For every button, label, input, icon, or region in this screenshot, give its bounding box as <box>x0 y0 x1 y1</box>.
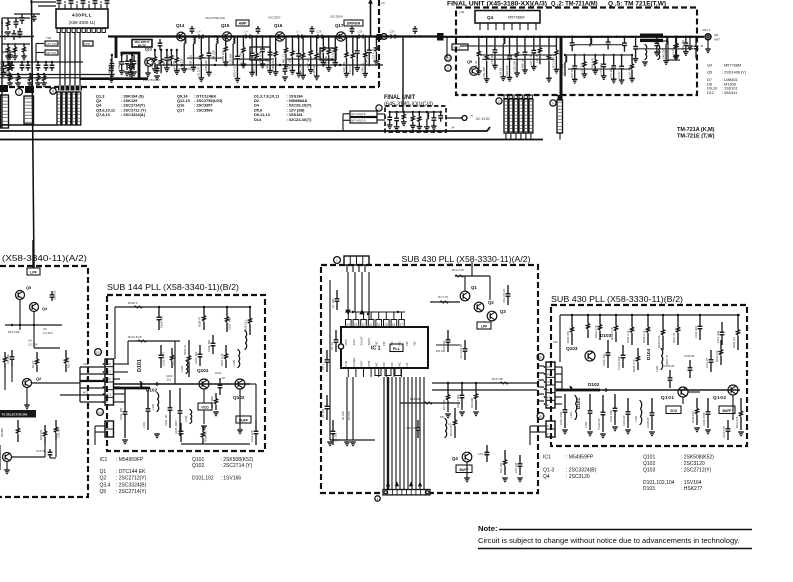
svg-text:L21 2.2: L21 2.2 <box>580 63 584 72</box>
svg-text:2.2 20V: 2.2 20V <box>43 331 53 335</box>
svg-text:C104 .3P: C104 .3P <box>164 415 168 426</box>
svg-text:101: 101 <box>96 350 101 354</box>
svg-text:20: 20 <box>377 323 381 327</box>
svg-text:Q101: Q101 <box>197 368 209 373</box>
svg-text:Q5: Q5 <box>707 71 712 75</box>
svg-text:R9 39K: R9 39K <box>0 428 4 437</box>
svg-text:R104 4.7K: R104 4.7K <box>632 359 636 372</box>
svg-text:R55 2.2: R55 2.2 <box>167 55 171 65</box>
svg-text:C105 .0047: C105 .0047 <box>174 420 178 434</box>
svg-text:L102: L102 <box>151 404 155 410</box>
svg-text:23: 23 <box>354 323 358 327</box>
svg-text:C101 470P: C101 470P <box>559 411 563 425</box>
svg-text:Q101: Q101 <box>661 395 674 400</box>
svg-text:C1 .022: C1 .022 <box>331 298 335 308</box>
svg-text:TX SELECTOR SW: TX SELECTOR SW <box>2 413 28 417</box>
svg-text:Q102: Q102 <box>233 395 245 400</box>
svg-text:Q4: Q4 <box>452 456 458 461</box>
svg-text:L101: L101 <box>569 412 573 418</box>
svg-text:C112 .001: C112 .001 <box>716 330 720 343</box>
svg-text:C40 .01: C40 .01 <box>360 62 364 72</box>
svg-text:: 2SC3324(B): : 2SC3324(B) <box>566 468 597 474</box>
svg-text:C104 470P: C104 470P <box>702 412 706 426</box>
svg-text:R13 0: R13 0 <box>31 360 35 368</box>
svg-text:L102: L102 <box>634 416 638 422</box>
svg-text:: 2SC2714 (Y): : 2SC2714 (Y) <box>221 463 253 469</box>
svg-text:Q4: Q4 <box>707 64 712 68</box>
svg-text:C38 22P: C38 22P <box>512 61 516 72</box>
svg-text:(X58-3300-11): (X58-3300-11) <box>69 20 96 25</box>
svg-text:.001: .001 <box>166 378 172 382</box>
svg-text:K-REF: K-REF <box>352 357 356 366</box>
svg-text:Q2: Q2 <box>488 300 494 305</box>
svg-text:L12 .01: L12 .01 <box>474 60 478 69</box>
svg-text:C26: C26 <box>390 30 395 34</box>
svg-text:FINAL UNIT: FINAL UNIT <box>384 94 415 101</box>
svg-text:TXB: TXB <box>46 36 51 40</box>
svg-text:TM-721A (K,M): TM-721A (K,M) <box>677 127 715 133</box>
svg-text:M57788M: M57788M <box>508 16 524 20</box>
svg-text:1: 1 <box>18 90 20 94</box>
svg-text:Q16: Q16 <box>274 23 283 28</box>
svg-text:C102 18P: C102 18P <box>609 410 613 422</box>
svg-text:: M54959FP: : M54959FP <box>566 454 594 460</box>
svg-text:L73 .001: L73 .001 <box>239 52 243 63</box>
svg-text:ANT-A/S(C)-R: ANT-A/S(C)-R <box>351 120 366 123</box>
svg-text:L105: L105 <box>232 360 236 366</box>
svg-text:R1 10K: R1 10K <box>341 411 345 420</box>
svg-text:R10 10K: R10 10K <box>221 50 225 61</box>
svg-text:C111 22P: C111 22P <box>250 430 254 442</box>
svg-text:(50: (50 <box>714 33 719 37</box>
svg-text:LPF: LPF <box>481 325 487 329</box>
svg-text:IC1: IC1 <box>100 457 108 463</box>
svg-text:C5 .1: C5 .1 <box>321 363 325 370</box>
svg-text:ANT: ANT <box>714 38 720 42</box>
svg-text:R10 2.2K: R10 2.2K <box>452 268 464 272</box>
svg-text:(+): (+) <box>470 114 473 118</box>
svg-text:SUB 144 PLL (X58-3340-11)(B/: SUB 144 PLL (X58-3340-11)(B/2) <box>107 283 239 292</box>
svg-text:R1 10K: R1 10K <box>3 31 7 40</box>
svg-text:C3 .01: C3 .01 <box>16 30 20 38</box>
svg-text:2SC2759(U23): 2SC2759(U23) <box>205 16 225 20</box>
svg-text:Q103: Q103 <box>643 468 655 474</box>
svg-text:D103: D103 <box>600 333 612 338</box>
svg-text:Q101: Q101 <box>643 454 655 460</box>
svg-text:C108 9P: C108 9P <box>684 354 695 358</box>
svg-text:Q14: Q14 <box>176 23 185 28</box>
svg-text:Q17: Q17 <box>335 23 344 28</box>
svg-text:C14 5P: C14 5P <box>36 449 46 453</box>
svg-text:R104 4.7K: R104 4.7K <box>626 330 630 343</box>
svg-text:D101,102,104: D101,102,104 <box>643 480 675 486</box>
svg-text:L101: L101 <box>142 422 146 428</box>
svg-text:C100 .001: C100 .001 <box>160 315 164 328</box>
svg-text:TEST: TEST <box>367 338 371 346</box>
svg-text:2SC3357: 2SC3357 <box>268 16 281 20</box>
svg-text:C15 22P: C15 22P <box>514 462 518 473</box>
svg-text:BUFF: BUFF <box>722 409 731 413</box>
svg-text:R107 47: R107 47 <box>665 354 669 365</box>
svg-text:RR 10K: RR 10K <box>436 349 446 353</box>
svg-text:C110: C110 <box>215 371 222 375</box>
svg-text:R14 4.7K: R14 4.7K <box>449 425 453 436</box>
svg-text:L22 2.2: L22 2.2 <box>348 65 352 74</box>
svg-text:S-IN: S-IN <box>352 340 356 346</box>
svg-text:430PLL: 430PLL <box>72 13 92 19</box>
svg-text:C5 22P: C5 22P <box>197 67 201 76</box>
svg-text:Q3: Q3 <box>500 309 506 314</box>
svg-text:C103: C103 <box>166 374 173 378</box>
svg-text:SUB 430 PLL (X58-3330-11)(B/: SUB 430 PLL (X58-3330-11)(B/2) <box>551 295 683 304</box>
svg-text:C103 3P: C103 3P <box>622 415 626 426</box>
svg-text:17: 17 <box>400 323 404 327</box>
svg-text:C4 .01: C4 .01 <box>330 342 334 350</box>
svg-text:Note:: Note: <box>478 524 498 533</box>
svg-text:R102 47: R102 47 <box>173 355 177 366</box>
svg-text:1: 1 <box>336 258 338 262</box>
svg-text:Q7,8,13: Q7,8,13 <box>96 112 111 117</box>
svg-text:Q15: Q15 <box>221 23 230 28</box>
svg-text:DW OUT: DW OUT <box>46 51 57 55</box>
svg-text:R2 10K: R2 10K <box>347 411 351 420</box>
svg-text:D104: D104 <box>646 348 651 360</box>
svg-text:R104 47: R104 47 <box>198 316 202 327</box>
svg-text:R10 6.8K: R10 6.8K <box>8 330 20 334</box>
svg-text:Q2: Q2 <box>100 476 107 482</box>
svg-text:L99 .001: L99 .001 <box>342 61 346 72</box>
svg-text:ANT-A/S(C)-B: ANT-A/S(C)-B <box>351 113 366 116</box>
svg-text:: 2SC2714(Y): : 2SC2714(Y) <box>116 489 147 495</box>
svg-text:L104: L104 <box>655 366 659 372</box>
svg-text:H: H <box>1 21 3 25</box>
svg-text:L (X58-3340-11)(A/2): L (X58-3340-11)(A/2) <box>0 254 88 263</box>
svg-text:PLL: PLL <box>393 346 401 351</box>
svg-text:X45-3: X45-3 <box>453 46 460 50</box>
svg-text:C101 .001: C101 .001 <box>119 407 123 420</box>
svg-text:MT2: MT2 <box>83 391 89 395</box>
svg-text:: DTC144 EK: : DTC144 EK <box>116 469 146 475</box>
svg-text:Q103: Q103 <box>566 346 578 351</box>
svg-text:C40 22P: C40 22P <box>661 48 665 59</box>
svg-text:Q1-3: Q1-3 <box>543 468 554 474</box>
svg-text:TL102 6P: TL102 6P <box>597 418 601 430</box>
svg-text:: 02CZ4.3X(T): : 02CZ4.3X(T) <box>287 117 313 122</box>
svg-text:TC101 20P: TC101 20P <box>617 356 621 370</box>
svg-text:R101 8.2K: R101 8.2K <box>128 335 142 339</box>
svg-text:R54 4.7K: R54 4.7K <box>258 51 262 62</box>
svg-text:: 2SD1406 (Y): : 2SD1406 (Y) <box>722 71 747 75</box>
svg-text:C7 2.2 6.3V: C7 2.2 6.3V <box>459 344 463 358</box>
svg-text:C44 33P: C44 33P <box>365 54 369 65</box>
svg-text:L103: L103 <box>584 422 588 428</box>
svg-text:R17 47K: R17 47K <box>442 399 446 410</box>
svg-text:UPT OUT: UPT OUT <box>46 42 58 46</box>
svg-text:R60 4.7K: R60 4.7K <box>591 58 595 69</box>
svg-text:R107 4.7K: R107 4.7K <box>220 353 224 366</box>
svg-text:D12: D12 <box>707 91 714 95</box>
svg-text:C8 2.2 6.3V: C8 2.2 6.3V <box>502 289 506 303</box>
svg-text:102: 102 <box>538 414 543 418</box>
svg-text:C51 22P: C51 22P <box>482 67 486 78</box>
svg-text:RST: RST <box>359 360 363 366</box>
svg-text:C4 .068: C4 .068 <box>6 354 10 364</box>
svg-text:R111 470: R111 470 <box>735 416 739 428</box>
svg-text:C103 .001: C103 .001 <box>602 353 606 366</box>
svg-text:1 /2W: 1 /2W <box>446 262 453 266</box>
svg-text:J3: J3 <box>700 44 704 48</box>
svg-text:: 2SC3569: : 2SC3569 <box>194 107 213 112</box>
svg-text:C10 .1 16V: C10 .1 16V <box>456 394 460 408</box>
svg-text:C37 4.7K: C37 4.7K <box>372 48 376 59</box>
svg-text:2SC3569: 2SC3569 <box>330 15 343 19</box>
svg-text:S-OUT: S-OUT <box>359 336 363 346</box>
svg-text:8: 8 <box>52 89 54 93</box>
svg-text:L34 .001: L34 .001 <box>627 66 631 77</box>
svg-text:L104: L104 <box>184 416 188 422</box>
svg-text:C13 10P: C13 10P <box>478 452 489 456</box>
svg-text:SUB 430 PLL (X58-3330-11)(A/: SUB 430 PLL (X58-3330-11)(A/2) <box>402 255 531 264</box>
svg-text:Q4: Q4 <box>487 15 494 20</box>
svg-text:R76 4.7K: R76 4.7K <box>233 66 237 77</box>
svg-text:ANT-1: ANT-1 <box>702 28 711 32</box>
svg-text:: 2SC2712(Y): : 2SC2712(Y) <box>681 468 712 474</box>
svg-text:CP5: CP5 <box>367 360 371 366</box>
svg-text:2.2 20V: 2.2 20V <box>28 343 38 347</box>
svg-text:C109 .001: C109 .001 <box>207 339 211 352</box>
svg-text:R104 102: R104 102 <box>204 430 208 442</box>
svg-text:C26: C26 <box>317 30 322 34</box>
svg-text:LPF: LPF <box>30 271 37 275</box>
svg-text:: 1SV166: : 1SV166 <box>221 476 242 482</box>
svg-text:: 1SV164: : 1SV164 <box>681 480 702 486</box>
svg-text:R103 47: R103 47 <box>183 344 187 355</box>
svg-text:R89 .001: R89 .001 <box>189 54 193 65</box>
svg-text:C197 .001: C197 .001 <box>194 351 198 364</box>
svg-text:C102 .0047: C102 .0047 <box>162 352 166 366</box>
svg-text:VCO: VCO <box>670 409 678 413</box>
svg-text:(4): (4) <box>381 1 385 5</box>
svg-text:C111 1P: C111 1P <box>705 358 709 368</box>
svg-text:Q5: Q5 <box>467 59 473 64</box>
svg-text:R91 2.2: R91 2.2 <box>281 53 285 63</box>
svg-text:C109 2P: C109 2P <box>646 417 650 428</box>
svg-text:R106 4.7K: R106 4.7K <box>642 330 646 343</box>
svg-text:L89 1K: L89 1K <box>117 61 121 70</box>
svg-text:Q3,4: Q3,4 <box>100 482 111 488</box>
svg-text:R96 .01: R96 .01 <box>520 59 524 69</box>
svg-text:18: 18 <box>392 323 396 327</box>
svg-text:R104 (C): R104 (C) <box>732 337 736 348</box>
svg-text:Q4: Q4 <box>42 306 48 311</box>
svg-text:D51: D51 <box>440 416 445 419</box>
svg-text:Q4: Q4 <box>543 474 550 480</box>
svg-text:R13 390: R13 390 <box>410 397 421 401</box>
svg-text:: 2SC3324(A): : 2SC3324(A) <box>121 112 146 117</box>
svg-text:C106 9P: C106 9P <box>664 364 675 368</box>
svg-text:R105 8.2K: R105 8.2K <box>657 335 661 348</box>
svg-text:C2 47: C2 47 <box>617 71 621 79</box>
svg-text:IC1: IC1 <box>543 454 551 460</box>
svg-text:101: 101 <box>538 355 543 359</box>
svg-text:C26: C26 <box>358 30 363 34</box>
svg-text:F-IN: F-IN <box>344 361 348 367</box>
svg-text:B: B <box>86 377 88 381</box>
svg-text:D103: D103 <box>643 486 655 492</box>
svg-text:Q2: Q2 <box>36 376 42 381</box>
svg-text:C94 22P: C94 22P <box>505 65 509 76</box>
svg-text:R108 100: R108 100 <box>691 411 695 423</box>
svg-text:C113 47P: C113 47P <box>722 426 726 438</box>
svg-text:AMP: AMP <box>239 22 247 26</box>
svg-text:C16 10P: C16 10P <box>406 426 417 430</box>
svg-text:: 05A341: : 05A341 <box>722 91 737 95</box>
svg-text:21: 21 <box>369 323 373 327</box>
svg-text:D14: D14 <box>254 117 262 122</box>
svg-text:R19 39K: R19 39K <box>470 397 474 408</box>
svg-text:R100 0: R100 0 <box>128 301 138 305</box>
svg-text:DC 13.8V: DC 13.8V <box>476 117 491 121</box>
svg-text:R108 560: R108 560 <box>210 396 214 408</box>
svg-text:VCC: VCC <box>344 338 348 345</box>
svg-text:DRIVER: DRIVER <box>347 22 361 26</box>
svg-text:C10 .02: C10 .02 <box>53 290 57 300</box>
svg-text:Q102: Q102 <box>192 463 204 469</box>
svg-text:Q17: Q17 <box>177 107 184 112</box>
svg-text:C19 .001: C19 .001 <box>57 427 61 438</box>
svg-text:R12 4.7K: R12 4.7K <box>67 357 71 368</box>
svg-text:D101: D101 <box>137 359 143 372</box>
svg-text:L103: L103 <box>180 366 184 372</box>
svg-text:: 2SC3324(B): : 2SC3324(B) <box>116 482 147 488</box>
svg-text:J4: J4 <box>451 126 455 130</box>
svg-text:R16 10K: R16 10K <box>492 377 503 381</box>
svg-text:: 2SC3120: : 2SC3120 <box>566 474 590 480</box>
svg-text:: 2SK508(K52): : 2SK508(K52) <box>681 454 714 460</box>
svg-text:R107 47: R107 47 <box>672 332 676 343</box>
svg-text:: M54959FP: : M54959FP <box>116 457 144 463</box>
svg-text:C107 .001: C107 .001 <box>228 317 232 330</box>
svg-text:C2 .001: C2 .001 <box>321 408 325 418</box>
svg-text:Q5: Q5 <box>26 285 32 290</box>
svg-text:: 2SC2712(Y): : 2SC2712(Y) <box>116 476 147 482</box>
svg-text:1P: 1P <box>222 376 225 380</box>
svg-text:Q102: Q102 <box>713 395 726 400</box>
svg-text:102: 102 <box>98 410 103 414</box>
svg-text:: HSK277: : HSK277 <box>681 486 703 492</box>
svg-text:L30 560: L30 560 <box>150 57 154 67</box>
svg-text:TEST: TEST <box>84 42 91 46</box>
svg-text:R102 47K: R102 47K <box>566 331 570 343</box>
svg-text:IC 1: IC 1 <box>371 346 381 352</box>
svg-text:Q5: Q5 <box>100 489 107 495</box>
svg-text:24: 24 <box>346 323 350 327</box>
svg-text:Q13: Q13 <box>145 48 152 52</box>
svg-text:(+B): (+B) <box>459 10 464 14</box>
svg-text:C4 .01: C4 .01 <box>499 67 503 75</box>
svg-text:VCO: VCO <box>201 406 209 410</box>
svg-text:22: 22 <box>362 323 366 327</box>
svg-text:C110 .001: C110 .001 <box>694 325 698 338</box>
svg-text:: M57788M: : M57788M <box>722 64 741 68</box>
svg-text:C8 .047: C8 .047 <box>4 64 8 74</box>
svg-text:R18 22K: R18 22K <box>39 429 43 440</box>
svg-text:SW: SW <box>553 340 558 344</box>
svg-text:Q1: Q1 <box>100 469 107 475</box>
svg-text:C87 1K: C87 1K <box>306 59 310 68</box>
svg-text:D101,102: D101,102 <box>192 476 214 482</box>
svg-text:: 2SC3120: : 2SC3120 <box>681 461 705 467</box>
svg-text:Q1: Q1 <box>471 285 477 290</box>
svg-text:Q102: Q102 <box>643 461 655 467</box>
svg-text:R7 4.7K: R7 4.7K <box>438 295 449 299</box>
svg-text:19: 19 <box>384 323 388 327</box>
svg-text:CH2: CH2 <box>83 362 89 366</box>
svg-text:Circuit is subject to change w: Circuit is subject to change without not… <box>478 536 740 545</box>
svg-text:TM-721E (T,W): TM-721E (T,W) <box>677 134 715 140</box>
svg-text:L23 560: L23 560 <box>228 53 232 63</box>
svg-text:R103 4.7K: R103 4.7K <box>594 325 598 338</box>
svg-text:R65 10K: R65 10K <box>0 60 3 71</box>
svg-text:R15 10K: R15 10K <box>499 462 503 473</box>
svg-text:D102: D102 <box>588 382 600 387</box>
